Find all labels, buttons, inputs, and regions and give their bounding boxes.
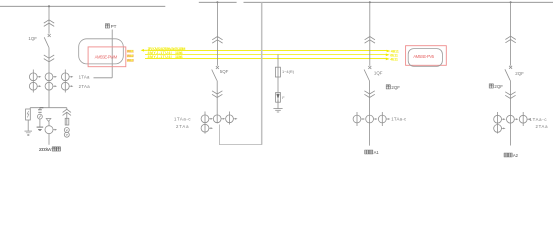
svg-text:1TAa-c: 1TAa-c (391, 117, 407, 122)
relay U1 red frame (88, 47, 126, 67)
svg-text:1QF: 1QF (28, 36, 37, 41)
drawout contact (lower chevrons) F1 (44, 55, 54, 58)
svg-text:1TAa-c: 1TAa-c (530, 117, 548, 122)
CT 2TAa phase A F2 (201, 124, 209, 132)
drawout contact (upper chevrons) F4 (505, 36, 515, 39)
node: bus junction F3 (369, 1, 371, 3)
drawout contact (upper chevrons) F1 (44, 20, 54, 23)
svg-text:WL1: WL1 (127, 49, 134, 53)
breaker blade F1 (44, 37, 49, 47)
yellow underline row 3 (145, 58, 388, 60)
wire F3 blade down (369, 81, 371, 146)
wire F1 breaker to CT section (48, 48, 50, 108)
label outgoing 2QF note F3 (386, 85, 390, 89)
rail wire (30, 107, 67, 109)
cabinet outline bottom (220, 125, 263, 145)
svg-text:2TAa: 2TAa (176, 124, 189, 129)
yellow underline row 2 (145, 54, 388, 56)
CT 2TAa phase A F4 (494, 124, 502, 132)
svg-text:2TAa: 2TAa (536, 124, 549, 129)
wire to motor (48, 121, 50, 125)
bus riser (thick light bar) (261, 2, 263, 144)
circuit breaker 5QF contact X (216, 66, 219, 69)
relay U2 rounded enclosure (408, 49, 442, 67)
CT column line phase A (left) (32, 70, 34, 93)
cable head triangle F1 (46, 119, 51, 122)
yellow arrowhead row3 right (386, 58, 390, 61)
circuit breaker 1QF contact X (48, 34, 51, 37)
CT phase C upper (61, 73, 69, 81)
svg-text:AM5SE-PWM: AM5SE-PWM (95, 55, 118, 60)
wire relay U1 horizontal to CT label (94, 77, 113, 79)
yellow mark row1 left (127, 50, 134, 53)
ground (capacitor) (37, 126, 44, 128)
yellow mark row2 left (127, 55, 134, 58)
fuse FU1 (65, 118, 69, 125)
yellow arrowhead row1 right (387, 50, 391, 53)
wire arrester to ground (27, 120, 29, 131)
CT 1TAa-c phase A F4 (494, 115, 502, 123)
wire branch from riser (277, 55, 279, 68)
ground (arrester branch) (273, 108, 282, 110)
voltage transformer TV winding 2 (64, 132, 69, 137)
CT phase C lower (61, 82, 69, 90)
resistor/fuse R (275, 67, 280, 77)
svg-text:2TAa: 2TAa (79, 84, 91, 89)
CT phase B F3 (on line) (366, 115, 374, 123)
CT 2TAa phase A lower (29, 82, 37, 90)
wire F4 bus to breaker (510, 2, 512, 65)
drawout contact (upper chevrons) F3 (365, 37, 375, 40)
wire relay U1 vertical (111, 30, 113, 78)
capacitor C plates (40, 107, 44, 109)
CT phase B F2 (on line) (213, 115, 221, 123)
svg-text:WL3: WL3 (127, 58, 134, 62)
CT 1TAa phase A upper (29, 73, 37, 81)
surge arrester F (box with arrow) (276, 93, 281, 103)
CT column phase C F4 (522, 112, 524, 126)
breaker blade F4 (505, 69, 510, 80)
CT column phase A F2 (204, 112, 206, 134)
wire arrester to ground (277, 102, 279, 108)
svg-text:2QF: 2QF (515, 71, 524, 76)
PT branch elbow (66, 108, 68, 110)
label outgoing cabinet F3 (365, 150, 369, 154)
node: bus junction F4 (510, 1, 512, 3)
breaker blade F2 (212, 70, 217, 81)
relay U2 red frame (406, 46, 447, 66)
surge arrester F1 (26, 109, 31, 120)
voltage transformer TV winding 1 (64, 128, 69, 133)
wire F2 bus to breaker (216, 2, 218, 66)
wire fuse to arrester (277, 77, 279, 93)
CT column phase A F4 (497, 112, 499, 134)
yellow underline row 1 (148, 50, 389, 52)
svg-text:1TAa: 1TAa (79, 74, 90, 79)
wire F4 blade down (509, 80, 511, 145)
svg-text:2000kW: 2000kW (39, 147, 53, 152)
svg-text:F: F (282, 95, 285, 100)
breaker blade F3 (364, 70, 369, 81)
PT drawout chevrons (63, 109, 71, 112)
label incoming 2QF note F4 (489, 84, 493, 88)
label PT note (105, 24, 109, 28)
yellow left arrow row1 (142, 49, 147, 51)
CT column line phase C (right) (64, 70, 66, 93)
svg-text:5QF: 5QF (220, 69, 229, 74)
wire cap to ground (39, 119, 41, 127)
CT phase A F3 (353, 115, 361, 123)
svg-text:AM5SE-PV5: AM5SE-PV5 (413, 54, 435, 59)
yellow arrowhead row2 right (386, 54, 390, 57)
wire chevron to fuse (66, 112, 68, 125)
svg-text:A1: A1 (374, 150, 380, 155)
drawout contact (lower chevrons) F3 (364, 91, 374, 94)
discharge coil circle (38, 114, 43, 119)
CT phase B upper (on main line) (45, 73, 53, 81)
svg-text:1TAa-c: 1TAa-c (174, 116, 191, 121)
svg-text:PT: PT (111, 24, 117, 29)
drawout contact (upper chevrons) F2 (212, 37, 222, 40)
relay U1 rounded enclosure (79, 39, 124, 64)
CT 1TAa-c phase A F2 (201, 115, 209, 123)
circuit breaker 2QF contact X (509, 66, 512, 69)
drawout contact (lower chevrons) F4 (505, 92, 515, 95)
svg-text:A2: A2 (513, 153, 519, 158)
CT phase C F2 (226, 115, 234, 123)
CT phase C F3 (378, 115, 386, 123)
CT phase B F4 (on line) (507, 115, 515, 123)
CT column phase A F3 (356, 112, 358, 126)
busbar section 3 (244, 1, 553, 3)
capacitor branch stub (39, 108, 41, 110)
CT column phase C F3 (381, 112, 383, 126)
wire F2 blade to CT (216, 81, 218, 124)
wire F1 from bus to breaker (48, 6, 50, 33)
zero sequence CT F1 (45, 126, 53, 134)
ground (arrester) (25, 130, 33, 132)
CT phase C F4 (519, 115, 527, 123)
node: bus junction F1 (48, 5, 50, 7)
svg-text:1QF: 1QF (374, 70, 383, 75)
CT column phase C F2 (229, 112, 231, 125)
svg-text:2QF: 2QF (494, 84, 503, 89)
svg-text:1~4(R): 1~4(R) (282, 69, 295, 74)
busbar section 2 (199, 1, 237, 3)
drawout contact (lower chevrons) F2 (212, 91, 222, 94)
busbar section 1 (left 10kV bus) (0, 5, 165, 7)
svg-text:2QF: 2QF (391, 85, 400, 90)
surge arrester branch elbow (29, 108, 31, 109)
svg-text:4E11: 4E11 (390, 57, 398, 61)
wire F3 bus to breaker (369, 2, 371, 66)
label outgoing cabinet F4 (504, 153, 508, 157)
CT phase B lower (on main line) (45, 82, 53, 90)
circuit breaker 1QF(F3) contact X (368, 66, 371, 69)
yellow mark row3 left (127, 59, 134, 62)
node: bus junction F2 (216, 1, 218, 3)
